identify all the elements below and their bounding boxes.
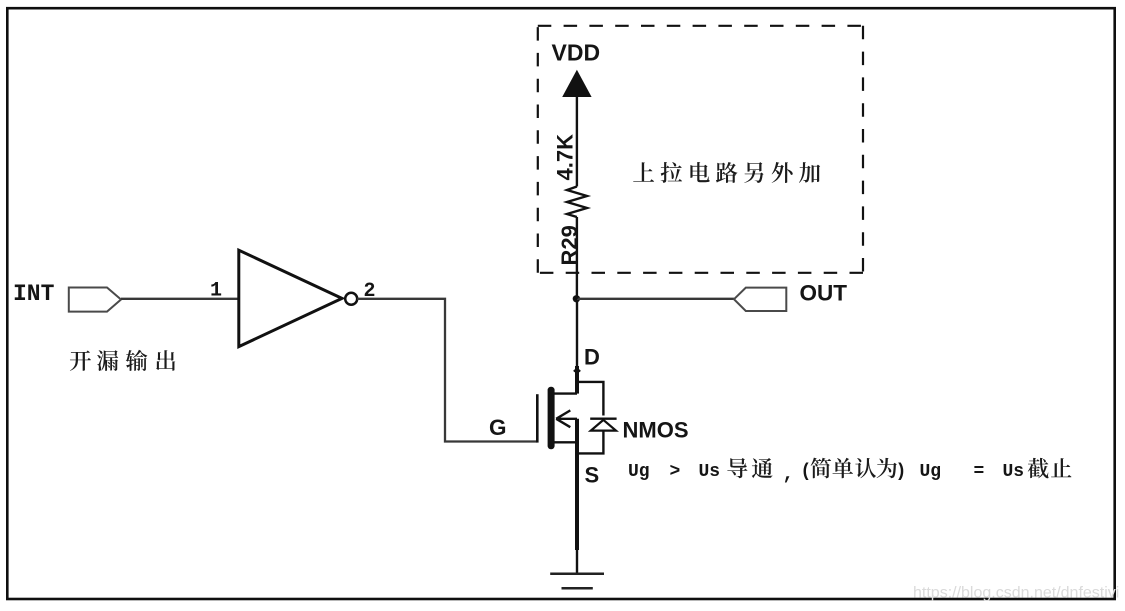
text 上拉电路另外加 (633, 162, 820, 183)
svg-text:=: = (974, 462, 985, 482)
svg-text:G: G (489, 415, 507, 440)
drain pin junction nub (573, 369, 580, 373)
ground bar 2 (562, 587, 593, 590)
svg-text:4.7K: 4.7K (552, 134, 577, 181)
wire resistor to node (576, 217, 578, 299)
body diode branch bottom (577, 431, 603, 454)
inverter output bubble (345, 293, 357, 305)
svg-text:INT: INT (13, 281, 55, 307)
wire VDD to resistor (576, 95, 578, 187)
svg-text:VDD: VDD (552, 40, 601, 66)
svg-text:): ) (896, 462, 907, 482)
node junction dot (573, 295, 580, 302)
source lead horizontal (554, 441, 578, 443)
transistor channel bar (548, 387, 555, 449)
svg-text:Us: Us (699, 462, 721, 482)
wire inverter output to NMOS gate (357, 299, 536, 442)
body arrow (556, 410, 577, 427)
note text 截止 (1028, 458, 1072, 478)
body diode triangle (591, 420, 616, 431)
note text 简单认为 (811, 458, 897, 479)
power VDD arrow (562, 70, 591, 97)
svg-text:R29: R29 (557, 225, 582, 265)
body diode branch top (577, 382, 603, 416)
port OUT tag (734, 288, 786, 311)
ground bar 1 (550, 573, 604, 576)
text 开漏输出 (70, 350, 175, 371)
source vertical wire to ground (576, 549, 578, 574)
svg-text:S: S (585, 463, 600, 488)
svg-text:>: > (670, 462, 681, 482)
drain vertical wire (576, 299, 578, 367)
svg-text:,: , (783, 463, 794, 485)
wire INT to inverter input (121, 298, 240, 300)
svg-text:1: 1 (210, 280, 222, 303)
inverter triangle (239, 250, 342, 346)
svg-text:OUT: OUT (800, 281, 848, 306)
dashed annotation box (538, 26, 863, 273)
note text 导通 (727, 458, 772, 478)
transistor Q NMOS: gate line (536, 394, 539, 442)
wire node to OUT (577, 298, 734, 300)
body diode cathode bar (590, 418, 616, 420)
drain pin lead (575, 366, 579, 394)
svg-text:(: ( (801, 462, 812, 482)
svg-text:Us: Us (1003, 462, 1025, 482)
svg-text:https://blog.csdn.net/dnfestiv: https://blog.csdn.net/dnfestivi (913, 585, 1119, 602)
svg-text:Ug: Ug (628, 462, 650, 482)
drain lead horizontal (554, 392, 578, 394)
source pin lead (575, 419, 579, 550)
port INT tag (69, 288, 121, 312)
svg-text:NMOS: NMOS (623, 418, 689, 443)
resistor R29 zigzag (567, 187, 587, 218)
svg-text:Ug: Ug (920, 462, 942, 482)
svg-text:D: D (584, 344, 600, 369)
